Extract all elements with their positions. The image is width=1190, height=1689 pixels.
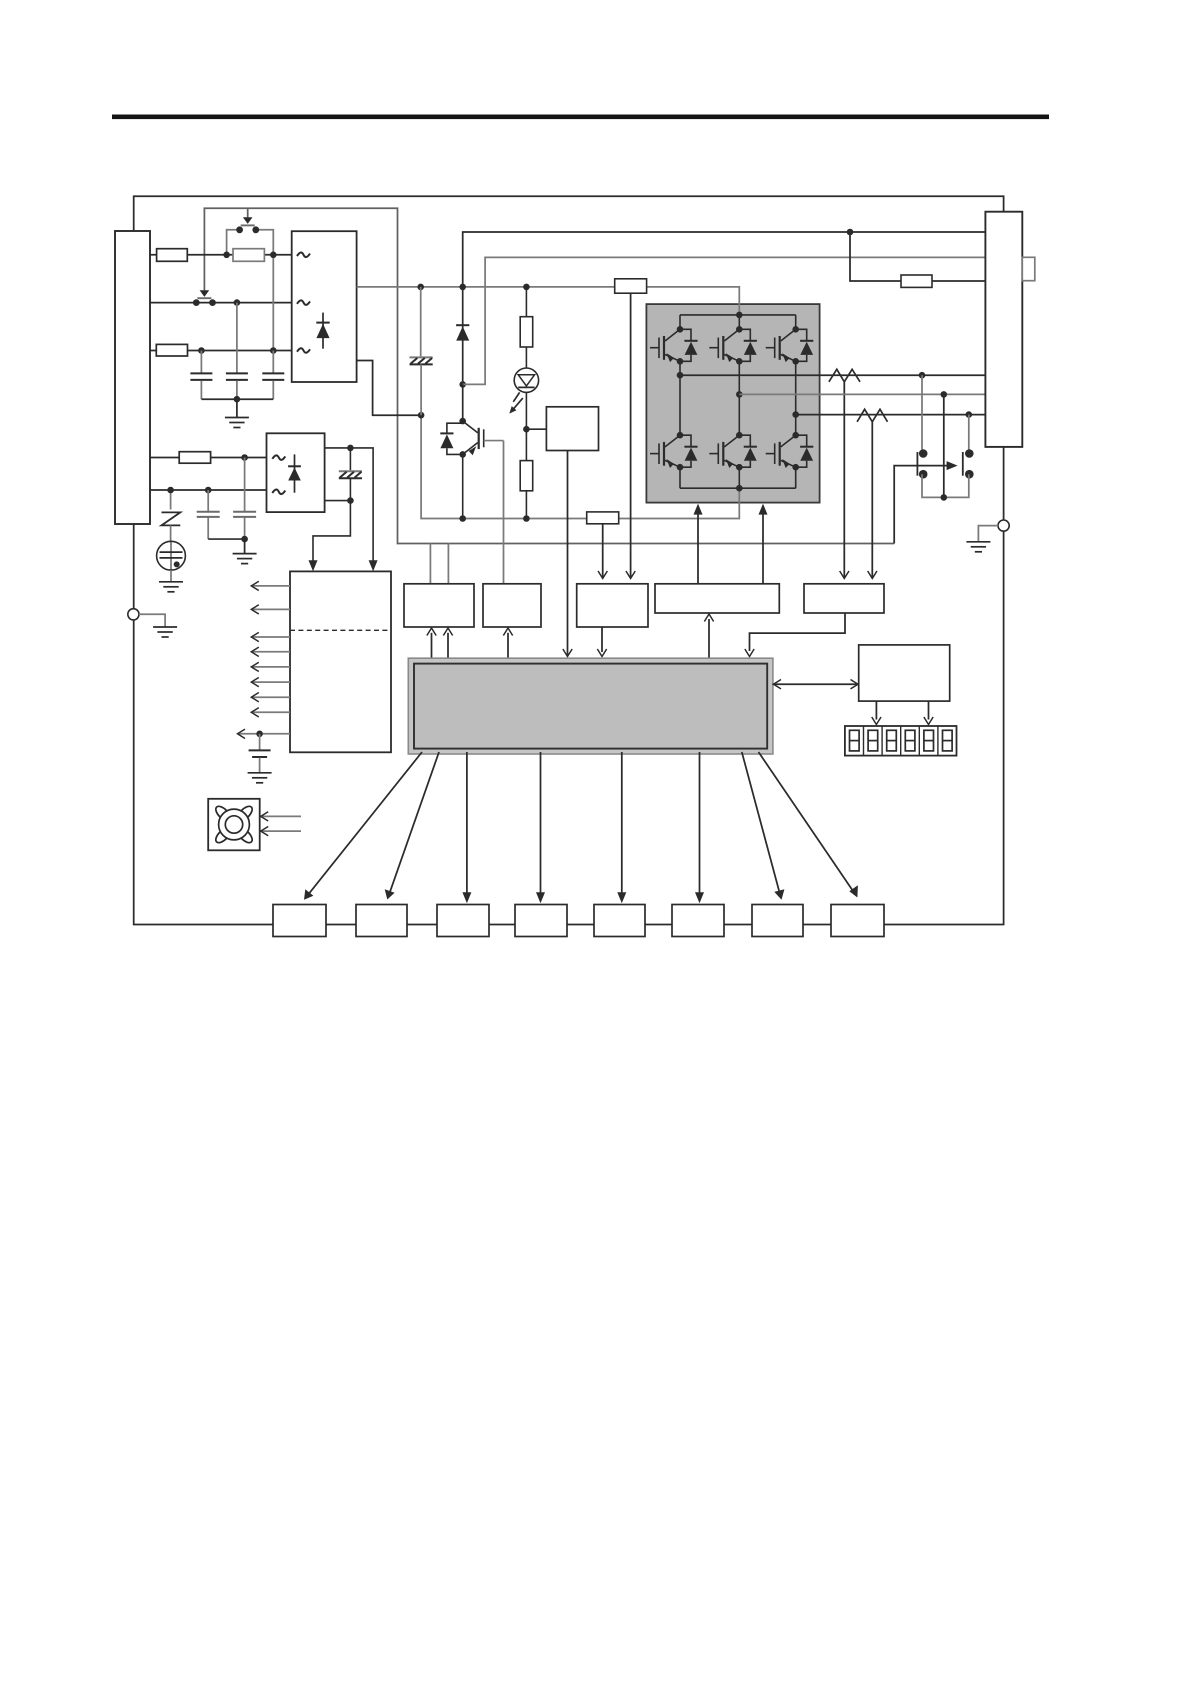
power output arrow lower 6: [252, 711, 290, 713]
IGBT W lower: [781, 435, 796, 447]
junction row2 caps: [234, 299, 241, 306]
wire row S/L2: [150, 302, 292, 304]
diode braking IGBT freewheel: [447, 423, 463, 433]
wire CPU to option box1: [307, 752, 423, 897]
wire operator to display 2: [928, 701, 930, 719]
resistor R1 input row1: [157, 249, 188, 262]
current sensor U: [829, 369, 860, 382]
wire to plus2 terminal: [463, 257, 986, 384]
junction DC+ led: [523, 284, 530, 291]
ac symbol row2: [297, 300, 310, 305]
wire DC- bus: [421, 415, 739, 518]
ac symbol control2: [272, 490, 285, 495]
wire brake emitter to DC-: [462, 454, 464, 518]
junction U phase: [677, 372, 684, 379]
gate drive box D: [655, 584, 779, 613]
wire DC+ entry: [738, 303, 740, 315]
driver box A: [404, 584, 474, 627]
capacitor C2 lead: [236, 303, 238, 373]
capacitor C1: [190, 372, 212, 374]
wire detector C to CPU: [601, 627, 603, 652]
terminal ground right: [998, 520, 1009, 531]
wire CPU to option box8: [759, 752, 855, 893]
wire ground bus left: [133, 524, 135, 609]
junction U tap: [919, 372, 926, 379]
wire operator to display 1: [875, 701, 877, 719]
capacitor C3: [262, 372, 284, 374]
junction V phase: [736, 391, 743, 398]
ac symbol row3: [297, 348, 310, 353]
wire fan power 1: [262, 815, 302, 817]
junction cap45: [241, 536, 248, 543]
junction DC+ chassis cap: [417, 284, 424, 291]
power output arrow lower 1: [252, 636, 290, 638]
transistor braking IGBT: [462, 384, 464, 421]
switching power supply box: [290, 571, 391, 752]
wire contactor drive net: [204, 208, 894, 543]
wire CPU to option box7: [742, 752, 780, 894]
resistor R2 soft charge: [233, 249, 264, 262]
capacitor C2: [226, 372, 248, 374]
power output arrow lower 3: [252, 666, 290, 668]
wire W leg: [795, 361, 797, 435]
wire cap bank common: [201, 398, 273, 400]
wire DC+ bus: [357, 287, 740, 304]
junction W phase: [792, 411, 799, 418]
junction W tap: [966, 411, 973, 418]
wire thermal contact feed: [894, 466, 947, 544]
option box 1: [273, 905, 326, 937]
contact MC1: [236, 226, 243, 233]
IGBT U upper: [665, 329, 680, 341]
thermal contact left: [916, 452, 918, 476]
junction row3 right: [270, 347, 277, 354]
wire to B1 terminal: [463, 232, 986, 287]
wire current detect to CPU: [750, 613, 846, 651]
option box 5: [594, 905, 645, 937]
resistor shunt DC-: [587, 512, 619, 524]
junction row4 cap: [241, 454, 248, 461]
junction brake node: [459, 381, 466, 388]
ac symbol control1: [272, 455, 285, 460]
junction B1 tap: [847, 229, 854, 236]
wire option chain to ground terminal: [884, 531, 1004, 924]
ground cap45: [244, 539, 246, 553]
wire DC- from rectifier: [357, 361, 422, 416]
wire control rect lower out: [313, 501, 350, 566]
power output arrow bottom: [238, 733, 290, 735]
wire top loop L1 to output terminal: [134, 196, 1004, 231]
power output arrow lower 5: [252, 696, 290, 698]
wire fan power 2: [262, 830, 302, 832]
wire MC1 drive branch: [247, 208, 249, 217]
wire CPU to option box4: [540, 752, 542, 898]
wire CPU to option box3: [466, 752, 468, 898]
wire DC- shunt to detector: [602, 524, 604, 577]
voltage detection box: [546, 407, 598, 451]
power output arrow upper 2: [252, 608, 290, 610]
contact MC2: [193, 299, 200, 306]
junction V tap: [941, 391, 948, 398]
IGBT W upper: [781, 329, 796, 341]
wire CPU to gate drive: [708, 619, 710, 658]
surge arrester tube: [170, 541, 172, 570]
power output arrow lower 2: [252, 651, 290, 653]
horizontal rule: [112, 115, 1049, 120]
ground right branch: [978, 526, 998, 542]
wire output block to ground terminal: [1003, 447, 1005, 520]
junction DC- led resistor: [523, 515, 530, 522]
input terminal block: [115, 231, 150, 524]
wire row s/l2 control: [150, 489, 267, 491]
capacitor C1 lead: [200, 351, 202, 373]
wire row r/l1 control: [150, 457, 267, 459]
driver box B: [483, 584, 541, 627]
junction cap bank: [234, 396, 241, 403]
junction P rail: [736, 312, 743, 319]
junction chassis cap2 bottom: [347, 497, 354, 504]
junction lamp lower: [523, 426, 530, 433]
rectifier control box: [267, 433, 325, 512]
wire U leg: [679, 361, 681, 435]
wire sensor U to detector: [843, 382, 845, 577]
capacitor C5: [244, 458, 246, 512]
wire lamp to voltage detector: [526, 392, 546, 429]
wire CPU to option box2: [389, 752, 439, 894]
LED charge lamp: [525, 347, 527, 368]
junction DC- corner: [418, 412, 425, 419]
junction contact common: [941, 494, 948, 501]
fan: [208, 799, 260, 851]
wire module P rail: [680, 315, 796, 329]
wire contact common: [922, 474, 969, 497]
option box 7: [752, 905, 803, 937]
option box 4: [515, 905, 567, 937]
diode control rectifier: [294, 454, 296, 492]
light emission arrow: [513, 392, 519, 401]
wire cap45 common: [208, 538, 244, 540]
wire row R/L1: [150, 254, 292, 256]
ground power supply: [248, 772, 272, 774]
wire U to thermal contact: [921, 375, 923, 449]
power output arrow lower 4: [252, 681, 290, 683]
diode rectifier symbol: [322, 313, 324, 349]
diode braking freewheel upper: [462, 287, 464, 385]
junction N rail: [736, 485, 743, 492]
wire option chain: [326, 924, 356, 926]
thermal contact right: [962, 452, 964, 476]
IGBT V lower: [724, 435, 739, 447]
resistor R3 input row3: [156, 344, 187, 356]
wire braking resistor link: [850, 232, 985, 281]
wire V leg: [738, 361, 740, 435]
CPU box: [408, 658, 773, 754]
junction row1 left: [223, 252, 230, 259]
junction brake emitter: [459, 451, 466, 458]
power output arrow upper 1: [252, 585, 290, 587]
wire phase W: [796, 414, 986, 416]
wire CPU to driver A2: [447, 633, 449, 658]
wire CPU to driver B: [507, 633, 509, 658]
capacitor C4: [207, 490, 209, 511]
wire link row1 to row3: [272, 255, 274, 351]
rectifier bridge box: [292, 231, 357, 382]
wire module N rail: [680, 467, 796, 488]
IGBT U lower: [665, 435, 680, 447]
wire gate drive W: [762, 508, 764, 584]
wire driver feed A2: [447, 544, 449, 584]
wire gate drive U: [697, 508, 699, 584]
capacitor Y2 chassis: [349, 448, 351, 470]
option box 3: [437, 905, 489, 937]
ac symbol row1: [297, 253, 310, 258]
ground cap bank: [236, 399, 238, 417]
junction DC+ diode: [459, 284, 466, 291]
wire voltage detect to CPU: [567, 451, 569, 657]
wire phase U: [680, 374, 985, 376]
resistor shunt DC+: [615, 279, 647, 293]
IGBT V upper: [724, 329, 739, 341]
wire W to thermal contact: [968, 415, 970, 450]
current detection box E: [804, 584, 884, 613]
option box 2: [356, 905, 407, 937]
wire MC1 bypass left: [227, 230, 240, 255]
junction power bottom: [256, 731, 263, 738]
wire CPU operator bidirectional: [773, 683, 859, 685]
varistor row4: [170, 490, 172, 510]
wire CPU to option box5: [621, 752, 623, 898]
junction row5 cap: [205, 487, 212, 494]
junction varistor: [167, 487, 174, 494]
capacitor Y chassis: [420, 287, 422, 357]
output block tab: [1022, 257, 1035, 280]
ground arrester: [159, 581, 183, 583]
option box 8: [831, 905, 884, 937]
resistor charge lamp upper: [525, 287, 527, 317]
arrow into thermal contact: [947, 461, 958, 470]
detection box C: [577, 584, 648, 627]
wire sensor W to detector: [871, 422, 873, 577]
wire phase V: [739, 393, 985, 395]
capacitor C3 lead: [272, 351, 274, 373]
output terminal block: [985, 212, 1022, 447]
operator interface box: [859, 645, 950, 701]
junction row3 left: [198, 347, 205, 354]
wire CPU to option box6: [699, 752, 701, 898]
resistor braking external: [901, 275, 932, 287]
wire brake gate to driver: [503, 441, 505, 584]
IGBT module: [646, 304, 819, 503]
divider dashed: [290, 629, 391, 631]
wire V to contact common: [943, 394, 945, 497]
wire driver feed A1: [429, 544, 431, 584]
seven segment display: [845, 726, 957, 756]
junction DC- brake emitter: [459, 515, 466, 522]
wire DC- exit: [738, 488, 740, 504]
junction chassis cap2 top: [347, 445, 354, 452]
wire row T/L3: [150, 350, 292, 352]
resistor charge lamp lower: [525, 429, 527, 460]
resistor R4 control input: [179, 452, 210, 464]
wire control rect upper out: [325, 448, 374, 566]
capacitor C6: [259, 734, 261, 750]
wire DC+ shunt to detector: [630, 293, 632, 577]
ground left branch: [139, 614, 165, 626]
wire ground bus bottom: [134, 620, 273, 925]
current sensor W: [857, 409, 887, 422]
option box 6: [672, 905, 724, 937]
junction row1 right: [270, 252, 277, 259]
wire MC1 bypass right: [256, 230, 273, 255]
wire CPU to driver A1: [431, 633, 433, 658]
terminal ground left: [128, 609, 139, 620]
